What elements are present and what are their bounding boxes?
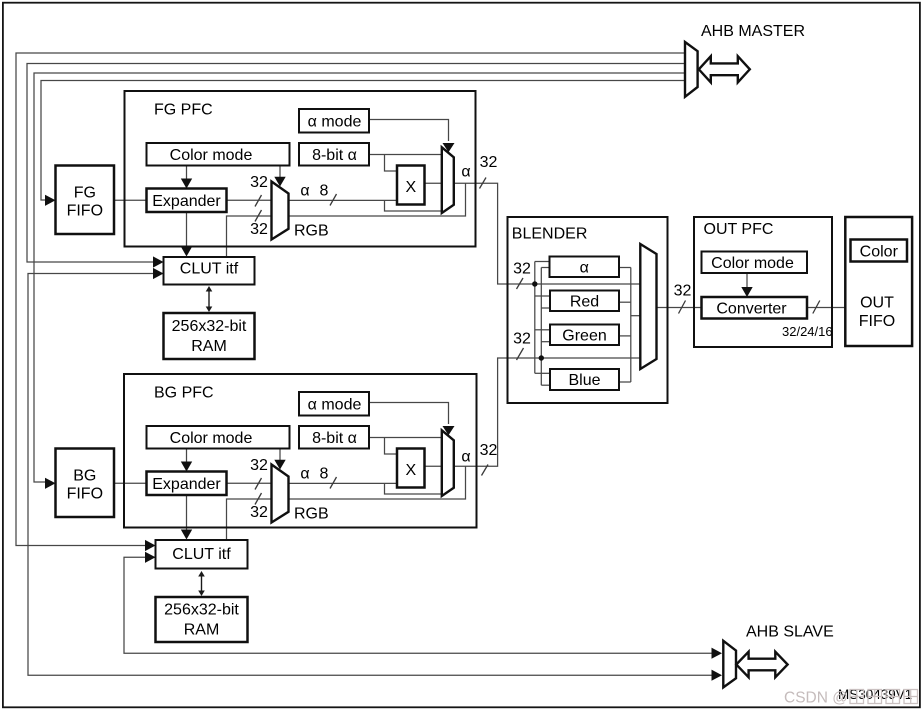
- mux FG alpha mux: [442, 147, 454, 213]
- arrowhead OUT color mode into converter: [741, 287, 752, 297]
- label FG 32 lower: [250, 221, 268, 238]
- svg-text:α mode: α mode: [308, 397, 362, 414]
- wire blender alpha block inputs: [535, 262, 550, 268]
- wire blender BG bus vertical 2: [540, 268, 542, 386]
- svg-text:α: α: [580, 259, 589, 276]
- slash FG clut bus: [255, 210, 262, 222]
- slash blender BG in: [517, 348, 524, 360]
- block BG CLUT itf: [156, 540, 248, 569]
- wire BG CLUT itf to AHB slave: [124, 557, 718, 653]
- svg-text:8-bit α: 8-bit α: [312, 430, 357, 447]
- block OUT Converter: [702, 297, 808, 319]
- wire BG Color mode to RGB mux select: [279, 449, 281, 463]
- arrowhead BG color mode select into mux: [274, 460, 285, 470]
- block blender Blue: [550, 369, 619, 390]
- block FG CLUT itf: [164, 257, 255, 285]
- arrowhead into BG CLUT itf input 2: [145, 552, 156, 563]
- arrowhead into FG CLUT itf input 2: [153, 268, 164, 279]
- wire BG mux RGB output: [289, 466, 466, 499]
- slash BG clut bus: [255, 493, 262, 505]
- block BG PFC: [124, 374, 477, 528]
- svg-text:8: 8: [320, 466, 329, 483]
- svg-text:FG PFC: FG PFC: [154, 102, 213, 119]
- wire BG Expander to CLUT itf: [186, 495, 188, 532]
- label FG 32 upper: [250, 174, 268, 191]
- block FG Expander: [147, 189, 227, 213]
- wire BG FIFO to Expander: [114, 482, 147, 484]
- slash FG 32 out: [480, 178, 487, 189]
- slash BG expander bus: [255, 478, 262, 490]
- svg-text:FIFO: FIFO: [67, 202, 103, 219]
- wire BG Color mode to Expander: [186, 449, 188, 465]
- wire FG alpha mode to alpha mux select: [369, 120, 449, 142]
- arrowhead into BG FIFO: [45, 478, 56, 489]
- block FG PFC: [125, 91, 476, 247]
- arrowhead BG alpha mode select into mux: [443, 426, 455, 435]
- wire FG Color mode to RGB mux select: [279, 166, 281, 180]
- wire OUT PFC color mode to converter: [746, 273, 748, 290]
- wire AHB-master line 4 (FG FIFO to AHB master): [41, 81, 686, 201]
- slash BG 32 out: [482, 465, 489, 476]
- svg-text:32: 32: [250, 221, 268, 238]
- register BG 8-bit alpha: [299, 426, 369, 449]
- svg-text:8-bit α: 8-bit α: [312, 147, 357, 164]
- svg-text:X: X: [405, 179, 416, 196]
- wire blender red block inputs: [535, 296, 550, 308]
- svg-text:256x32-bit: 256x32-bit: [172, 318, 247, 335]
- svg-text:256x32-bit: 256x32-bit: [164, 602, 239, 619]
- register OUT Color mode: [702, 252, 808, 274]
- label BG 32 upper: [250, 457, 268, 474]
- label blender 32 in BG: [513, 331, 531, 348]
- label FG alpha out: [461, 164, 470, 181]
- svg-text:FIFO: FIFO: [67, 485, 103, 502]
- arrowhead FG color mode select into mux: [274, 177, 285, 187]
- svg-text:α: α: [300, 466, 309, 483]
- double arrow FG CLUT itf to RAM: [206, 286, 213, 312]
- wire AHB-master line 2 (FG CLUT itf to AHB master): [27, 64, 686, 263]
- label AHB MASTER: [701, 23, 805, 40]
- svg-text:OUT PFC: OUT PFC: [704, 221, 774, 238]
- svg-text:CSDN @: CSDN @: [784, 690, 848, 707]
- wire FG 8-bit alpha to alpha mux: [369, 155, 442, 172]
- wire FG X output to alpha mux: [425, 182, 442, 184]
- svg-text:AHB SLAVE: AHB SLAVE: [746, 624, 834, 641]
- register BG Color mode: [147, 426, 290, 449]
- svg-text:α: α: [300, 183, 309, 200]
- svg-text:BG PFC: BG PFC: [154, 385, 214, 402]
- block BG 256x32-bit RAM: [156, 597, 248, 642]
- wire BG X output to alpha mux: [425, 465, 442, 467]
- wire BG Expander output to mux (32): [227, 482, 272, 484]
- node junction BG bus dot: [539, 355, 544, 360]
- svg-text:Blue: Blue: [568, 372, 600, 389]
- label blender 32 in FG: [513, 261, 531, 278]
- svg-text:OUT: OUT: [860, 294, 894, 311]
- block BG multiplier X: [397, 449, 425, 488]
- wire blender output (32) to OUT PFC converter: [657, 307, 702, 309]
- svg-text:32: 32: [250, 174, 268, 191]
- wire FG FIFO to Expander: [114, 199, 147, 201]
- label FG alpha 8: [300, 183, 328, 200]
- svg-text:32: 32: [480, 442, 498, 459]
- svg-text:Red: Red: [570, 293, 599, 310]
- svg-text:Color mode: Color mode: [170, 147, 253, 164]
- svg-text:Color mode: Color mode: [711, 255, 794, 272]
- register FG alpha mode: [299, 109, 369, 133]
- svg-text:Converter: Converter: [716, 300, 787, 317]
- wire FG Expander output to mux (32): [227, 199, 272, 201]
- svg-text:Green: Green: [562, 327, 606, 344]
- svg-text:FIFO: FIFO: [859, 313, 895, 330]
- mux BG RGB expander mux: [272, 465, 289, 523]
- wire FG CLUT output to mux (32): [227, 216, 272, 257]
- WATERMARK: [784, 690, 918, 707]
- block blender Red: [550, 291, 619, 312]
- mux AHB master port: [685, 42, 698, 97]
- arrowhead BG expander into CLUT itf: [181, 530, 192, 540]
- svg-text:RAM: RAM: [184, 622, 220, 639]
- bidirectional arrow AHB slave: [736, 652, 787, 678]
- block BLENDER: [508, 217, 668, 403]
- label AHB SLAVE: [746, 624, 834, 641]
- label 32/24/16: [782, 324, 833, 339]
- wire blender green block inputs: [535, 330, 550, 342]
- block FG multiplier X: [397, 166, 425, 205]
- arrowhead into FG CLUT itf input 1: [153, 256, 164, 267]
- svg-text:32: 32: [480, 154, 498, 171]
- svg-text:RGB: RGB: [294, 506, 329, 523]
- mux BG alpha mux: [442, 430, 454, 496]
- svg-text:32: 32: [250, 457, 268, 474]
- svg-text:32: 32: [513, 261, 531, 278]
- wire blender block outputs to mux: [619, 268, 640, 383]
- svg-text:RAM: RAM: [191, 338, 227, 355]
- wire FG mux RGB output: [289, 183, 466, 216]
- wire FG PFC output (32) to blender: [454, 183, 641, 284]
- block BG FIFO: [56, 449, 115, 518]
- label BG 32 lower: [250, 504, 268, 521]
- double arrow BG CLUT itf to RAM: [198, 571, 205, 596]
- label BG RGB: [294, 506, 329, 523]
- arrowhead into BG CLUT itf input 1: [145, 540, 156, 551]
- wire FG mux alpha output (8) to X and alpha mux: [289, 200, 442, 211]
- svg-text:α mode: α mode: [308, 114, 362, 131]
- svg-text:32: 32: [513, 331, 531, 348]
- svg-text:CLUT itf: CLUT itf: [180, 260, 239, 277]
- svg-text:α: α: [461, 449, 470, 466]
- svg-text:BLENDER: BLENDER: [512, 226, 588, 243]
- wire AHB-master line 1 (BG CLUT itf to AHB master): [16, 53, 686, 546]
- register FG 8-bit alpha: [299, 143, 369, 166]
- arrowhead FG alpha mode select into mux: [443, 143, 455, 152]
- svg-text:Expander: Expander: [152, 476, 221, 493]
- arrowhead into AHB slave input 2: [712, 670, 723, 681]
- arrowhead FG color mode into expander: [181, 179, 192, 189]
- label blender 32 out: [674, 283, 692, 300]
- label FG 32 out: [480, 154, 498, 171]
- svg-text:Color: Color: [860, 243, 899, 260]
- label BG 32 out: [480, 442, 498, 459]
- slash FG alpha8 bus: [330, 194, 337, 206]
- svg-text:X: X: [405, 462, 416, 479]
- bidirectional arrow AHB master: [699, 56, 750, 82]
- mux FG RGB expander mux: [272, 182, 289, 240]
- svg-text:AHB MASTER: AHB MASTER: [701, 23, 805, 40]
- wire BG alpha mode to alpha mux select: [369, 403, 449, 425]
- svg-text:32/24/16: 32/24/16: [782, 324, 833, 339]
- svg-text:RGB: RGB: [294, 223, 329, 240]
- wire BG mux alpha output (8) to X and alpha mux: [289, 483, 442, 494]
- register OUT Color: [851, 240, 908, 262]
- register BG alpha mode: [299, 392, 369, 416]
- mux AHB slave port: [723, 641, 736, 688]
- slash converter out: [813, 301, 820, 314]
- block FG 256x32-bit RAM: [164, 313, 255, 359]
- arrowhead BG color mode into expander: [181, 462, 192, 472]
- block OUT FIFO: [845, 217, 912, 346]
- svg-text:BG: BG: [73, 467, 96, 484]
- label BG alpha out: [461, 449, 470, 466]
- svg-text:CLUT itf: CLUT itf: [172, 546, 231, 563]
- label MS30439V1: [838, 687, 912, 702]
- wire FG Color mode to Expander: [186, 166, 188, 182]
- slash FG expander bus: [255, 195, 262, 207]
- block BG Expander: [147, 472, 227, 496]
- block FG FIFO: [56, 166, 115, 235]
- label FG RGB: [294, 223, 329, 240]
- wire converter output to OUT FIFO: [807, 307, 846, 309]
- block blender Green: [550, 325, 619, 346]
- slash blender out: [679, 301, 686, 314]
- slash BG alpha8 bus: [330, 477, 337, 489]
- wire blender FG bus vertical 1: [534, 262, 536, 374]
- svg-text:FG: FG: [74, 184, 96, 201]
- mux blender output mux: [640, 244, 656, 369]
- svg-text:Color mode: Color mode: [170, 430, 253, 447]
- svg-text:8: 8: [320, 183, 329, 200]
- block OUT PFC: [694, 217, 832, 347]
- wire FG Expander to CLUT itf: [186, 212, 188, 249]
- arrowhead FG expander into CLUT itf: [181, 247, 192, 257]
- wire AHB-master line 3 (BG FIFO to AHB master): [34, 73, 686, 482]
- wire FG CLUT itf to AHB slave: [28, 274, 718, 676]
- label BG alpha 8: [300, 466, 328, 483]
- svg-text:32: 32: [250, 504, 268, 521]
- block blender alpha: [550, 257, 620, 278]
- register FG Color mode: [147, 143, 290, 166]
- wire BG 8-bit alpha to alpha mux: [369, 438, 442, 455]
- slash blender FG in: [517, 278, 524, 289]
- wire BG PFC output (32) to blender: [454, 358, 641, 466]
- arrowhead into FG FIFO: [45, 195, 56, 206]
- node junction FG bus dot: [532, 281, 537, 286]
- svg-text:Expander: Expander: [152, 193, 221, 210]
- svg-text:32: 32: [674, 283, 692, 300]
- wire BG CLUT output to mux (32): [227, 499, 272, 540]
- wire blender blue block inputs: [535, 373, 550, 385]
- arrowhead into AHB slave input 1: [712, 648, 723, 659]
- svg-text:α: α: [461, 164, 470, 181]
